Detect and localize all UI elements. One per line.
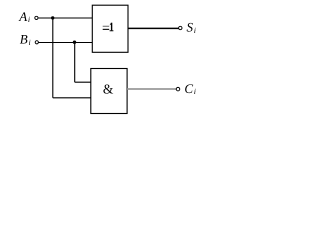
- svg-text:&: &: [103, 81, 114, 96]
